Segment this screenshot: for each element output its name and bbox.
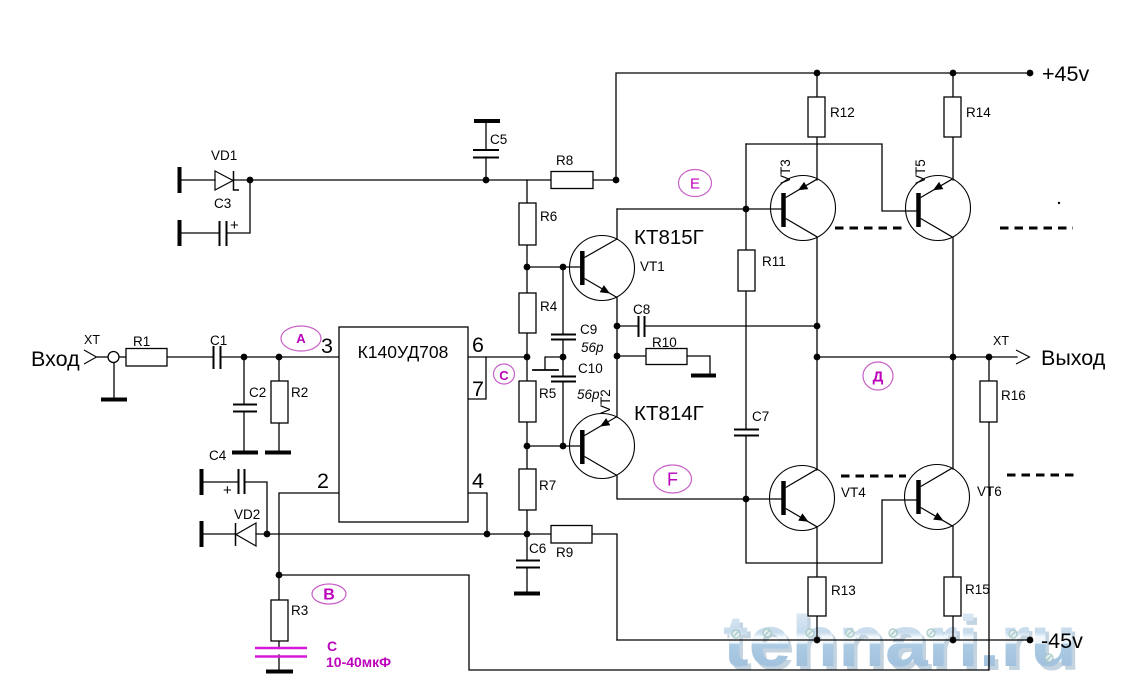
svg-text:+: + bbox=[230, 217, 239, 234]
node A ellipse bbox=[281, 326, 321, 351]
capacitor C10 bbox=[551, 376, 576, 378]
svg-text:VT4: VT4 bbox=[841, 485, 866, 500]
svg-text:R15: R15 bbox=[965, 582, 990, 597]
wire VT3 collector down bbox=[816, 237, 818, 357]
resistor R3 bbox=[271, 600, 288, 641]
node C ellipse bbox=[494, 364, 515, 384]
wire R13 bottom bbox=[816, 616, 818, 640]
svg-text:R9: R9 bbox=[556, 545, 573, 560]
wire C2 bottom bbox=[243, 412, 245, 451]
capacitor C3 bbox=[219, 221, 221, 246]
terminal bar C5 top bbox=[474, 119, 500, 123]
wire comp bar bbox=[533, 369, 558, 371]
wire output to VT4 bbox=[816, 357, 818, 470]
capacitor C2 bbox=[233, 404, 257, 406]
svg-text:C9: C9 bbox=[580, 322, 597, 337]
svg-text:56p: 56p bbox=[581, 340, 604, 355]
transistor VT3 bbox=[771, 176, 836, 241]
wire C5 stub top bbox=[485, 122, 487, 150]
stray speck bbox=[1058, 202, 1060, 204]
resistor R8 bbox=[551, 172, 593, 189]
wire VT2 collector to F line bbox=[617, 475, 781, 499]
svg-text:-45v: -45v bbox=[1041, 629, 1083, 653]
wire C9 top riser bbox=[562, 267, 564, 334]
dashed ellipsis right of VT6 bbox=[1007, 474, 1078, 477]
wire R8 to +45 riser bbox=[593, 179, 616, 181]
svg-text:R6: R6 bbox=[540, 209, 557, 224]
node B ellipse bbox=[312, 584, 346, 604]
variable capacitor C 10-40мкФ (magenta) bbox=[255, 648, 307, 657]
wire C4 left bbox=[202, 481, 238, 483]
capacitor C9 bbox=[551, 334, 576, 336]
svg-text:R16: R16 bbox=[1001, 388, 1026, 403]
wire -45v rail bbox=[617, 639, 1030, 641]
svg-text:VT6: VT6 bbox=[977, 484, 1002, 499]
wire R5 to node bbox=[526, 422, 528, 469]
wire C10 to VT2 base line bbox=[562, 382, 564, 446]
ground input jack bbox=[101, 398, 127, 402]
svg-text:R11: R11 bbox=[762, 254, 786, 269]
svg-text:К140УД708: К140УД708 bbox=[358, 342, 449, 362]
resistor R14 bbox=[944, 97, 961, 137]
node F ellipse bbox=[654, 465, 692, 493]
svg-text:2: 2 bbox=[317, 469, 329, 493]
svg-text:КТ815Г: КТ815Г bbox=[634, 226, 704, 249]
wire R12 top bbox=[816, 73, 818, 97]
transistor VT4 bbox=[770, 466, 835, 531]
dashed ellipsis VT4-VT6 bbox=[841, 475, 906, 478]
wire VD2 left bbox=[202, 533, 235, 535]
wire jack to R1 bbox=[119, 356, 126, 358]
resistor R10 bbox=[646, 349, 687, 365]
capacitor C6 bbox=[516, 560, 540, 562]
svg-text:VD2: VD2 bbox=[234, 507, 260, 522]
wire R10 left bbox=[617, 355, 646, 357]
wire C1 to pin3 bbox=[221, 356, 339, 358]
node E ellipse bbox=[679, 170, 712, 197]
wire R14 to VT5 bbox=[952, 137, 954, 180]
svg-text:C7: C7 bbox=[752, 409, 769, 424]
capacitor C8 bbox=[638, 316, 640, 337]
ground C6 bbox=[514, 592, 540, 596]
wire R11 to C7 bbox=[745, 291, 747, 429]
svg-text:R10: R10 bbox=[652, 335, 677, 350]
svg-text:R2: R2 bbox=[291, 385, 308, 400]
wire R10 to ground bbox=[687, 356, 710, 374]
wire cap to ground bbox=[278, 655, 280, 670]
wire VT1 collector riser bbox=[616, 209, 618, 239]
resistor R16 bbox=[980, 381, 997, 422]
wire E node to R11 bbox=[745, 144, 747, 250]
terminal bar C4 left bbox=[200, 469, 204, 495]
svg-text:КТ814Г: КТ814Г bbox=[634, 402, 704, 425]
wire pin2 bbox=[279, 493, 339, 575]
resistor R13 bbox=[808, 577, 826, 616]
wire R2 bottom bbox=[278, 423, 280, 451]
svg-text:XT: XT bbox=[993, 334, 1009, 348]
svg-text:10-40мкФ: 10-40мкФ bbox=[326, 654, 391, 670]
wire R1 to C1 bbox=[167, 356, 213, 358]
svg-text:С: С bbox=[327, 638, 337, 654]
wire C8 left bbox=[617, 325, 638, 327]
terminal bar C3 left bbox=[178, 220, 182, 246]
wire comp stub bbox=[545, 357, 563, 369]
capacitor C4 bbox=[238, 469, 240, 494]
wire node to R4 bbox=[526, 267, 528, 293]
wire C3 right riser bbox=[227, 180, 250, 233]
svg-text:+: + bbox=[223, 482, 232, 499]
wire C3 left bbox=[181, 232, 219, 234]
wire R6 top bbox=[526, 180, 528, 203]
svg-text:Выход: Выход bbox=[1041, 346, 1106, 370]
output chevron bbox=[1016, 350, 1030, 364]
junction dots bbox=[247, 177, 254, 184]
wire C6 bottom bbox=[526, 568, 528, 592]
wire C7 to F line bbox=[745, 436, 747, 499]
wire VD2 to pin4 line bbox=[256, 533, 551, 535]
wire C5 bottom bbox=[485, 157, 487, 180]
wire R7 bottom bbox=[526, 510, 528, 534]
wire C2 top bbox=[243, 357, 245, 404]
svg-text:6: 6 bbox=[472, 333, 484, 357]
svg-text:C1: C1 bbox=[210, 333, 227, 348]
svg-text:С: С bbox=[499, 368, 509, 383]
wire R14 top bbox=[952, 73, 954, 97]
wire output line bbox=[817, 356, 1017, 358]
svg-text:56p: 56p bbox=[577, 387, 600, 402]
svg-text:4: 4 bbox=[472, 469, 484, 493]
svg-text:Вход: Вход bbox=[31, 347, 80, 371]
svg-text:VT3: VT3 bbox=[778, 159, 793, 184]
wire +45v rail bbox=[616, 73, 1030, 180]
svg-text:C2: C2 bbox=[249, 385, 266, 400]
wire R15 bottom bbox=[952, 616, 954, 640]
wire R4 to pin6 node bbox=[526, 333, 528, 381]
svg-text:C4: C4 bbox=[209, 448, 227, 463]
wire output to VT6 bbox=[952, 357, 954, 469]
resistor R15 bbox=[944, 577, 961, 616]
svg-text:C10: C10 bbox=[578, 361, 603, 376]
svg-text:R1: R1 bbox=[133, 334, 150, 349]
capacitor C5 bbox=[473, 149, 499, 151]
svg-text:7: 7 bbox=[472, 377, 484, 401]
svg-text:Д: Д bbox=[873, 369, 884, 386]
wire R9 right drop bbox=[592, 534, 617, 640]
resistor R1 bbox=[126, 349, 167, 367]
wire R12 to VT3 bbox=[816, 137, 818, 180]
svg-text:F: F bbox=[667, 470, 678, 490]
wire pin6 bbox=[468, 356, 527, 358]
op-amp U1 К140УД708 bbox=[339, 327, 468, 522]
resistor R9 bbox=[551, 526, 592, 544]
diode VD1 bbox=[215, 171, 239, 190]
ground R3 cap bbox=[266, 670, 293, 674]
ground R2 bbox=[265, 451, 291, 455]
resistor R5 bbox=[519, 381, 536, 422]
svg-text:А: А bbox=[296, 331, 306, 346]
svg-text:C3: C3 bbox=[214, 196, 231, 211]
wire node B feedback line bbox=[279, 422, 989, 670]
svg-text:R12: R12 bbox=[830, 105, 855, 120]
svg-text:R14: R14 bbox=[966, 105, 991, 120]
dashed ellipsis right of VT5 bbox=[1000, 227, 1073, 230]
svg-text:C8: C8 bbox=[633, 302, 650, 317]
node D ellipse bbox=[863, 362, 893, 390]
wire VT5 collector down bbox=[952, 237, 954, 357]
wire VD1 node line bbox=[181, 179, 215, 181]
input jack circle bbox=[108, 352, 119, 363]
wire VT6 emitter to R15 bbox=[952, 526, 954, 577]
svg-text:R13: R13 bbox=[831, 583, 856, 598]
wire R16 top bbox=[988, 357, 990, 381]
capacitor C1 bbox=[213, 346, 215, 369]
svg-text:R8: R8 bbox=[556, 153, 573, 168]
wire E line bbox=[617, 208, 781, 210]
transistor VT2 КТ814Г bbox=[570, 414, 635, 479]
wire F to VT6 base bypass bbox=[746, 499, 916, 563]
dashed ellipsis VT3-VT5 bbox=[835, 227, 905, 230]
wire C9 to comp node bbox=[562, 340, 564, 376]
wire R2 top bbox=[278, 357, 280, 381]
svg-text:R4: R4 bbox=[540, 299, 558, 314]
resistor R4 bbox=[519, 293, 536, 333]
transistor VT5 bbox=[906, 176, 971, 241]
svg-text:VT1: VT1 bbox=[640, 259, 665, 274]
svg-text:VT2: VT2 bbox=[598, 389, 613, 414]
ground C2 bbox=[232, 451, 258, 455]
wire jack ground stub bbox=[113, 362, 115, 398]
wire diode to R8 bbox=[233, 179, 551, 181]
wire R3 to cap bbox=[278, 641, 280, 648]
svg-text:+45v: +45v bbox=[1042, 62, 1089, 86]
wire C4 right drop bbox=[245, 482, 267, 534]
svg-text:C6: C6 bbox=[529, 541, 546, 556]
diode VD2 bbox=[236, 523, 257, 546]
resistor R6 bbox=[519, 203, 536, 245]
terminal bar VD1 left bbox=[178, 167, 182, 193]
wire input chevron to jack bbox=[97, 356, 108, 358]
wire VT4 emitter to R13 bbox=[816, 527, 818, 577]
svg-text:В: В bbox=[323, 587, 335, 604]
svg-text:Е: Е bbox=[690, 176, 700, 193]
input chevron bbox=[84, 350, 97, 364]
wire VT2 base bbox=[527, 445, 580, 447]
wire pin4 bbox=[468, 493, 487, 534]
resistor R7 bbox=[519, 469, 536, 510]
wire pin7 tie bbox=[468, 357, 486, 399]
resistor R2 bbox=[271, 381, 288, 423]
capacitor C7 bbox=[734, 429, 759, 431]
wire VT1 base bbox=[527, 266, 580, 268]
terminal bar VD2 left bbox=[200, 521, 204, 547]
transistor VT6 bbox=[905, 465, 970, 530]
wire VT1 emitter to VT2 bbox=[616, 297, 618, 417]
svg-text:3: 3 bbox=[321, 334, 333, 358]
svg-text:XT: XT bbox=[84, 333, 100, 347]
wire C6 top bbox=[526, 534, 528, 560]
transistor VT1 КТ815Г bbox=[570, 236, 635, 301]
svg-text:VD1: VD1 bbox=[211, 148, 237, 163]
resistor R12 bbox=[808, 97, 825, 137]
resistor R11 bbox=[738, 250, 755, 291]
wire C8 right bbox=[645, 325, 817, 327]
wire VT3 VT5 base tie bbox=[746, 144, 916, 211]
wire R6 bottom to node bbox=[526, 245, 528, 267]
svg-text:VT5: VT5 bbox=[913, 159, 928, 184]
svg-text:R5: R5 bbox=[539, 386, 556, 401]
ground R10 bbox=[691, 374, 716, 378]
svg-text:R3: R3 bbox=[291, 603, 308, 618]
svg-text:C5: C5 bbox=[490, 132, 507, 147]
wire R3 top bbox=[278, 575, 280, 600]
svg-text:R7: R7 bbox=[539, 478, 556, 493]
